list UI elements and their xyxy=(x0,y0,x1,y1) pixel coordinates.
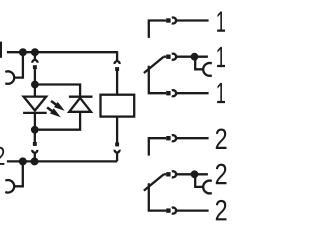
wire node D to plug P2 xyxy=(34,134,36,143)
freewheeling diode D2 triangle xyxy=(69,98,91,112)
LED D1 cathode wire xyxy=(34,113,36,130)
contact group 2 NO fixed contact xyxy=(149,138,166,155)
terminal label 2 (cropped at left edge) xyxy=(0,147,4,165)
node junction dot contact 1 xyxy=(191,53,199,61)
wire bottom contact 1 to terminal xyxy=(176,92,209,94)
LED D1 triangle xyxy=(24,97,47,111)
contact 2 bottom plug pin xyxy=(166,208,170,212)
plug-in connection P2 socket xyxy=(32,150,37,153)
terminal number label 2 mid (row 2) xyxy=(216,164,227,185)
wire node C to diode branch xyxy=(35,85,80,97)
terminal label 1 (cropped at left edge) xyxy=(0,42,2,58)
plug-in connection P2 pin xyxy=(33,142,37,146)
node junction dot contact 2 xyxy=(191,170,199,178)
node C junction dot xyxy=(31,81,39,89)
contact 2 mid plug socket xyxy=(172,171,176,177)
contact group 1 NO fixed contact xyxy=(149,21,166,38)
contact group 1 movable blade xyxy=(144,57,164,73)
contact group 2 movable blade xyxy=(144,175,164,191)
coil top plug pin xyxy=(115,67,119,71)
LED D1 emission arrow 2 xyxy=(47,107,61,117)
contact 1 mid plug socket xyxy=(172,54,176,60)
terminal number label 2 bottom (row 3) xyxy=(216,200,227,221)
contact 2 COM stub xyxy=(164,173,167,175)
terminal number label 1 top (row 1) xyxy=(217,11,225,31)
node D junction dot xyxy=(31,126,39,134)
wire clamp 1 drop xyxy=(14,52,23,77)
node junction dot rail 2 / LED branch xyxy=(31,157,39,165)
wire mid contact 2 to terminal xyxy=(176,173,208,175)
contact 2 bottom plug socket xyxy=(172,208,176,214)
coil bottom plug socket xyxy=(115,150,120,153)
LED D1 anode wire xyxy=(34,85,36,97)
plug-in connection P1 socket xyxy=(32,60,37,63)
wire contact 1 clamp drop xyxy=(195,60,203,70)
contact group 2 common riser xyxy=(149,183,166,210)
coil top plug socket xyxy=(115,61,120,64)
cage clamp symbol terminal 1 xyxy=(5,71,14,83)
wire rail of terminal 1 xyxy=(7,51,117,53)
wire mid contact 1 to terminal xyxy=(176,56,208,58)
cage clamp symbol terminal 2 xyxy=(5,180,14,192)
cage clamp symbol contact 1 xyxy=(203,63,212,76)
contact 2 NO plug pin xyxy=(166,136,170,140)
contact 1 COM stub xyxy=(164,56,167,58)
contact 1 NO plug socket xyxy=(172,18,176,24)
contact 2 mid plug pin xyxy=(166,172,170,176)
wire NO contact 2 to terminal xyxy=(176,137,209,139)
node junction dot rail 1 / coil branch xyxy=(31,48,39,56)
wire bottom contact 2 to terminal xyxy=(176,209,209,211)
LED D1 emission arrow 1 xyxy=(51,101,65,111)
wire coil bottom to plug xyxy=(116,117,118,143)
contact 1 mid plug pin xyxy=(166,55,170,59)
terminal number label 1 bottom (row 3) xyxy=(217,83,225,103)
freewheeling diode D2 cathode bar xyxy=(69,96,93,98)
terminal number label 2 top (row 1) xyxy=(216,128,227,149)
terminal number label 1 mid (row 2) xyxy=(217,47,225,67)
wire rail 1 corner down to coil plug xyxy=(116,51,118,61)
contact group 1 common riser xyxy=(149,66,166,94)
wire D2 anode to node D xyxy=(35,112,80,130)
wire coil plug to rail 2 xyxy=(116,153,118,162)
wire dot to plug P1 xyxy=(34,54,36,59)
wire clamp 2 drop xyxy=(14,161,23,186)
plug-in connection P1 pin xyxy=(33,65,37,69)
wire plug P1 to node C xyxy=(34,69,36,84)
LED D1 cathode bar xyxy=(23,112,47,114)
cage clamp symbol contact 2 xyxy=(203,181,212,194)
contact 2 NO plug socket xyxy=(172,135,176,141)
contact 1 NO plug pin xyxy=(166,18,170,22)
node junction dot rail 1 / clamp branch xyxy=(19,48,27,56)
wire plug P2 to rail 2 xyxy=(34,153,36,158)
coil bottom plug pin xyxy=(115,143,119,147)
wire NO contact 1 to terminal xyxy=(176,19,209,21)
wire coil plug to coil xyxy=(116,71,118,95)
wire contact 2 clamp drop xyxy=(195,177,203,187)
relay coil K1 xyxy=(101,95,135,117)
contact 1 bottom plug pin xyxy=(166,91,170,95)
node junction dot rail 2 / clamp branch xyxy=(19,157,27,165)
wire rail of terminal 2 xyxy=(7,160,117,162)
contact 1 bottom plug socket xyxy=(172,90,176,96)
